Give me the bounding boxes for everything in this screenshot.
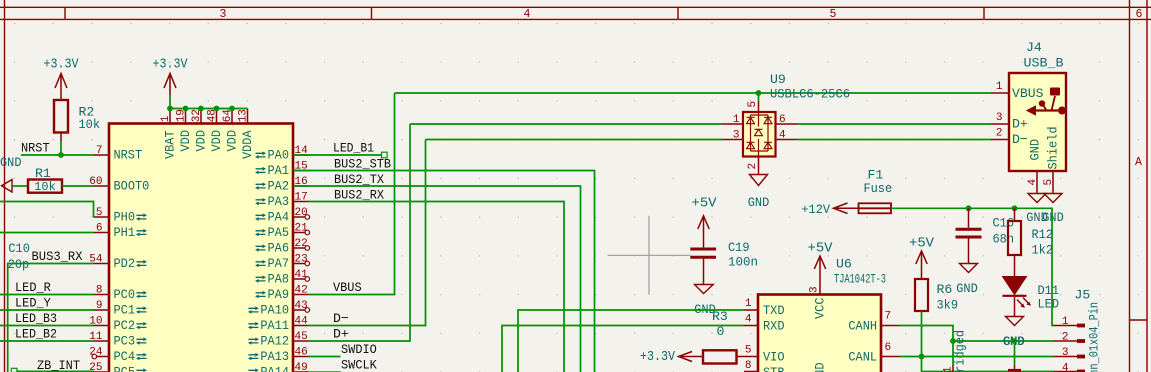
svg-text:NRST: NRST <box>114 148 143 163</box>
svg-text:21: 21 <box>295 222 309 234</box>
solder jumper stub <box>952 365 954 372</box>
svg-text:5: 5 <box>1043 179 1055 186</box>
wire LED_Y <box>0 309 94 311</box>
junction U9 pin5 tap <box>756 90 762 96</box>
U6 pin4 stub <box>744 325 758 327</box>
svg-text:17: 17 <box>295 191 308 203</box>
MCU left pin names <box>114 148 150 372</box>
svg-text:USB_B: USB_B <box>1024 56 1064 71</box>
power +3.3V (R2 pull-up) <box>44 56 79 100</box>
J4 pin5 stub <box>1052 171 1054 194</box>
power +5V (R6) <box>909 236 935 280</box>
svg-text:5: 5 <box>747 101 759 108</box>
power +12V <box>801 202 858 217</box>
svg-text:8: 8 <box>96 284 103 296</box>
svg-text:5: 5 <box>830 8 837 21</box>
svg-text:GND: GND <box>813 362 828 372</box>
resistor R1 <box>28 166 62 194</box>
svg-text:+3.3V: +3.3V <box>640 349 675 365</box>
svg-text:VCC: VCC <box>813 297 828 319</box>
J4 pin4 stub <box>1036 171 1038 194</box>
wire +3.3V to VBAT rail <box>169 95 171 109</box>
svg-text:PA0: PA0 <box>268 148 290 163</box>
svg-text:BUS2_RX: BUS2_RX <box>334 188 384 203</box>
svg-text:R6: R6 <box>937 282 953 297</box>
svg-text:46: 46 <box>295 346 308 358</box>
wire LED_R <box>0 294 94 296</box>
junction VBAT <box>167 106 173 112</box>
wire R2 to NRST <box>60 141 62 155</box>
svg-text:BUS2_TX: BUS2_TX <box>334 172 384 187</box>
MCU left pin stubs <box>92 155 109 372</box>
svg-text:13: 13 <box>237 109 249 122</box>
wire D- row to U9 pin3 <box>426 139 722 141</box>
wire R3 to VIO pin5 <box>737 356 759 358</box>
svg-text:PC1: PC1 <box>114 303 136 318</box>
wire PD2 / BUS3_RX <box>8 264 94 372</box>
resistor R12 <box>1008 208 1053 276</box>
J4 pin3 stub <box>991 123 1009 125</box>
svg-text:9: 9 <box>96 300 103 312</box>
svg-text:C16: C16 <box>993 216 1015 231</box>
svg-text:VBUS: VBUS <box>1012 86 1044 101</box>
svg-text:D+: D+ <box>333 327 349 342</box>
svg-text:3: 3 <box>1062 347 1069 359</box>
MCU top pin numbers 1 19 32 48 64 13 <box>160 109 250 123</box>
svg-text:23: 23 <box>295 253 308 265</box>
svg-text:3: 3 <box>220 8 227 21</box>
junction NRST node <box>58 152 64 158</box>
svg-text:1: 1 <box>160 115 172 122</box>
svg-text:BOOT0: BOOT0 <box>114 179 150 194</box>
svg-text:PC4: PC4 <box>114 349 136 364</box>
svg-text:PA9: PA9 <box>268 287 290 302</box>
wire VDD rail <box>170 108 248 110</box>
U6 pin7 stub <box>881 325 899 327</box>
svg-text:3: 3 <box>996 112 1003 124</box>
svg-text:TJA1042T-3: TJA1042T-3 <box>834 272 886 287</box>
wire SWDIO <box>309 356 341 358</box>
svg-text:PA7: PA7 <box>268 256 290 271</box>
svg-text:5: 5 <box>745 345 752 357</box>
sheet-pin arrow BOOT0 <box>2 180 13 193</box>
svg-text:BUS2_STB: BUS2_STB <box>334 157 391 172</box>
svg-text:22: 22 <box>295 238 308 250</box>
svg-text:GND: GND <box>1028 139 1043 161</box>
svg-text:2: 2 <box>996 128 1003 140</box>
svg-text:LED: LED <box>1038 297 1060 312</box>
U9 pin3 stub <box>722 139 744 141</box>
U9 body (TVS array) <box>743 112 776 157</box>
LED D11 <box>1003 277 1060 317</box>
wire GND to J5 pin2 <box>953 340 1054 342</box>
wire LED_B2 <box>0 340 94 342</box>
ground J4 pin4 <box>1028 194 1046 203</box>
ground C16 <box>956 264 978 297</box>
svg-text:R3: R3 <box>712 309 728 324</box>
junction C16 tap <box>966 205 972 211</box>
junction VDD48 <box>214 106 220 112</box>
svg-text:PC0: PC0 <box>114 287 136 302</box>
capacitor C16 <box>956 208 1015 263</box>
svg-text:D−: D− <box>333 311 349 326</box>
U6 pin names <box>763 303 877 372</box>
svg-text:6: 6 <box>779 114 786 126</box>
svg-text:BUS3_RX: BUS3_RX <box>32 249 83 264</box>
svg-text:+3.3V: +3.3V <box>153 56 188 72</box>
svg-text:20p: 20p <box>8 257 30 272</box>
svg-text:Conn_01x04_Pin: Conn_01x04_Pin <box>1087 302 1102 372</box>
svg-text:U9: U9 <box>770 72 786 87</box>
svg-text:NRST: NRST <box>21 141 50 156</box>
svg-text:STB: STB <box>763 365 785 372</box>
power +3.3V (R3/VIO) <box>640 349 703 365</box>
svg-text:6: 6 <box>885 342 892 354</box>
svg-text:100n: 100n <box>728 255 758 270</box>
U6 pin8 stub <box>744 371 758 372</box>
svg-text:4: 4 <box>1062 363 1069 372</box>
fuse F1 <box>859 168 893 214</box>
ground C19 <box>694 285 716 318</box>
wire CANH to jumper <box>899 326 953 366</box>
wire end square LED_B1 <box>382 152 388 158</box>
svg-text:VDD: VDD <box>225 130 240 152</box>
svg-text:3: 3 <box>809 286 821 293</box>
MCU top pin names VBAT VDD VDDA <box>163 130 256 159</box>
wire BUS2_RX <box>309 202 565 372</box>
U9 pin5 stub <box>758 101 760 112</box>
svg-text:PA2: PA2 <box>268 179 290 194</box>
svg-text:1: 1 <box>733 114 740 126</box>
svg-text:PH0: PH0 <box>114 210 136 225</box>
svg-text:49: 49 <box>295 362 308 372</box>
U6 pin1 stub <box>744 309 758 311</box>
svg-text:6: 6 <box>96 222 103 234</box>
svg-text:42: 42 <box>295 284 308 296</box>
U6 pin numbers <box>745 298 891 372</box>
svg-text:68n: 68n <box>993 232 1015 247</box>
svg-text:J5: J5 <box>1075 288 1091 303</box>
capacitor C19 <box>690 240 758 285</box>
svg-text:1: 1 <box>745 298 752 310</box>
wire end square ZB_INT <box>11 368 17 372</box>
svg-text:VDD: VDD <box>178 130 193 152</box>
svg-text:VBAT: VBAT <box>163 130 178 159</box>
svg-text:1: 1 <box>1062 316 1069 328</box>
wire SWCLK <box>309 371 341 372</box>
ground D11 <box>1003 317 1025 350</box>
U9 pin2 stub <box>758 157 760 170</box>
svg-text:VBUS: VBUS <box>333 280 362 295</box>
wire LED_B3 <box>0 325 94 327</box>
resistor R2 <box>54 100 100 141</box>
svg-text:+5V: +5V <box>692 195 718 211</box>
svg-text:C10: C10 <box>8 241 30 256</box>
svg-text:4: 4 <box>524 8 531 21</box>
svg-text:USBLC6-25C6: USBLC6-25C6 <box>770 87 850 102</box>
U9 pin6 stub <box>776 123 798 125</box>
svg-text:PA3: PA3 <box>268 194 290 209</box>
wire U9 pin6 to J4 D+ <box>798 123 992 125</box>
svg-text:ZB_INT: ZB_INT <box>37 358 80 372</box>
svg-text:LED_B3: LED_B3 <box>15 311 57 326</box>
svg-text:VIO: VIO <box>763 350 785 365</box>
svg-text:PC5: PC5 <box>114 365 136 372</box>
MCU top power pin stubs <box>170 109 248 124</box>
svg-text:PA12: PA12 <box>260 334 289 349</box>
svg-text:TXD: TXD <box>763 303 785 318</box>
svg-text:2: 2 <box>747 163 759 170</box>
svg-text:20: 20 <box>295 207 308 219</box>
svg-text:45: 45 <box>295 331 308 343</box>
wire D+ row to U9 pin1 <box>410 123 722 125</box>
svg-text:SWDIO: SWDIO <box>341 342 377 357</box>
wire RXD <box>502 326 744 372</box>
svg-text:PA14: PA14 <box>260 365 289 372</box>
svg-text:Bridged: Bridged <box>953 330 968 372</box>
svg-text:3k9: 3k9 <box>937 298 959 313</box>
wire tap to U9 pin5 <box>758 93 760 101</box>
MCU left pin numbers <box>89 145 103 372</box>
wire R6 to CANL and J5 pin4 <box>922 311 1054 372</box>
junction GND tap <box>1012 338 1018 344</box>
svg-text:+3.3V: +3.3V <box>44 56 79 72</box>
svg-text:PA4: PA4 <box>268 210 290 225</box>
svg-text:R12: R12 <box>1032 227 1054 242</box>
svg-text:SWCLK: SWCLK <box>341 358 377 372</box>
svg-text:D+: D+ <box>1012 117 1028 132</box>
border zone numbers <box>220 8 1143 169</box>
wire BUS2_TX <box>294 186 581 372</box>
wire VBUS to J4 <box>395 92 992 94</box>
wire NRST <box>21 154 94 156</box>
J4 pin numbers 1 3 2 <box>996 81 1003 140</box>
wire R1 to BOOT0 <box>62 185 94 187</box>
wire TXD <box>518 310 744 372</box>
svg-text:4: 4 <box>779 129 786 141</box>
svg-text:1k2: 1k2 <box>1032 243 1054 258</box>
wire D- riser <box>309 140 426 326</box>
svg-text:D−: D− <box>1012 132 1028 147</box>
svg-text:PC2: PC2 <box>114 318 136 333</box>
MCU right pin stubs <box>293 155 310 372</box>
cursor crosshair <box>608 216 691 295</box>
svg-text:44: 44 <box>295 315 309 327</box>
J5 pin contacts <box>1054 324 1086 372</box>
wire PH0 jog <box>0 202 94 218</box>
svg-text:1: 1 <box>996 81 1003 93</box>
MCU right pin names <box>248 148 289 372</box>
wire BUS2_STB <box>294 171 595 372</box>
J4 body <box>1009 73 1066 171</box>
svg-text:4: 4 <box>745 314 752 326</box>
svg-text:2: 2 <box>1062 332 1069 344</box>
junction VDD32 <box>198 106 204 112</box>
wire GND drop <box>1014 341 1016 365</box>
wire D+ riser <box>309 124 411 341</box>
U6 body <box>758 295 881 372</box>
svg-text:LED_B1: LED_B1 <box>333 141 374 156</box>
U9 pin numbers <box>733 101 786 170</box>
U6 pin6 stub <box>881 356 899 358</box>
resistor R6 <box>915 279 958 313</box>
svg-text:A: A <box>1135 156 1142 169</box>
U9 pin4 stub <box>776 139 798 141</box>
svg-text:6: 6 <box>1136 8 1143 21</box>
svg-text:Shield: Shield <box>1045 127 1060 170</box>
svg-text:VDD: VDD <box>209 130 224 152</box>
svg-text:VDDA: VDDA <box>240 130 255 159</box>
J4 USB icon <box>1026 88 1066 116</box>
svg-text:GND: GND <box>956 281 978 296</box>
wire U9 pin4 to J4 D- <box>798 139 992 141</box>
svg-text:10k: 10k <box>79 117 101 132</box>
svg-text:PH1: PH1 <box>114 225 136 240</box>
svg-text:VDD: VDD <box>194 130 209 152</box>
wire arrow to R1 <box>12 185 28 187</box>
svg-text:J4: J4 <box>1026 40 1042 55</box>
svg-text:7: 7 <box>885 311 892 323</box>
U9 pin1 stub <box>722 123 744 125</box>
svg-text:10k: 10k <box>34 180 56 194</box>
svg-text:8: 8 <box>745 360 752 372</box>
svg-text:0: 0 <box>717 324 725 339</box>
svg-text:PA5: PA5 <box>268 225 290 240</box>
J5 pin numbers <box>1062 316 1069 372</box>
svg-text:5: 5 <box>96 207 103 219</box>
J4 pin1 stub <box>991 92 1009 94</box>
wire ZB_INT <box>17 370 94 372</box>
svg-text:PA10: PA10 <box>260 303 289 318</box>
svg-text:GND: GND <box>748 195 770 210</box>
svg-text:GND: GND <box>0 155 22 170</box>
svg-text:Fuse: Fuse <box>864 181 893 196</box>
svg-text:U6: U6 <box>836 257 852 272</box>
svg-text:PC3: PC3 <box>114 334 136 349</box>
svg-text:PD2: PD2 <box>114 256 136 271</box>
svg-text:PA6: PA6 <box>268 241 290 256</box>
power +3.3V (VDD rail) <box>153 56 188 95</box>
svg-text:7: 7 <box>96 145 103 157</box>
svg-text:24: 24 <box>89 346 103 358</box>
svg-text:41: 41 <box>295 269 309 281</box>
wire PH1 <box>0 232 94 234</box>
svg-text:PA11: PA11 <box>260 318 289 333</box>
MCU right pin numbers <box>295 145 309 372</box>
junction VDD64 <box>229 106 235 112</box>
svg-text:CANL: CANL <box>848 350 877 365</box>
junction VDD19 <box>183 106 189 112</box>
wire +12V net <box>891 208 1054 325</box>
svg-text:LED_Y: LED_Y <box>15 296 51 311</box>
power +5V (U6 VCC) <box>808 241 834 295</box>
power +5V (C19) <box>692 195 718 247</box>
MCU IC body <box>109 124 293 372</box>
svg-text:3: 3 <box>733 129 740 141</box>
svg-text:+5V: +5V <box>909 236 935 252</box>
svg-text:C19: C19 <box>728 240 750 255</box>
svg-text:PA13: PA13 <box>260 349 289 364</box>
wire CANL to J5 pin3 <box>899 356 1054 358</box>
junction R6-CANL <box>919 354 925 360</box>
svg-text:GND: GND <box>1042 210 1064 225</box>
svg-text:4: 4 <box>1027 179 1039 186</box>
ground U9 <box>748 169 770 210</box>
J4 pin numbers 4 5 <box>1027 179 1055 186</box>
wire LED_B1 <box>294 154 383 156</box>
ground power bar <box>1008 365 1021 370</box>
svg-text:LED_R: LED_R <box>15 280 51 295</box>
J4 pin2 stub <box>991 139 1009 141</box>
svg-text:CANH: CANH <box>848 319 877 334</box>
svg-text:RXD: RXD <box>763 319 785 334</box>
svg-text:43: 43 <box>295 300 308 312</box>
svg-text:PA8: PA8 <box>268 272 290 287</box>
svg-text:PA1: PA1 <box>268 163 290 178</box>
svg-text:LED_B2: LED_B2 <box>15 327 57 342</box>
ground J4 pin5 <box>1044 194 1062 203</box>
svg-text:+12V: +12V <box>801 202 830 217</box>
wire VBUS riser <box>309 93 395 295</box>
resistor R3 body <box>703 350 737 363</box>
J4 pin names <box>1012 86 1060 170</box>
junction CANH-GND branch <box>950 338 956 344</box>
junction R12 tap <box>1012 205 1018 211</box>
svg-text:+5V: +5V <box>808 241 834 257</box>
